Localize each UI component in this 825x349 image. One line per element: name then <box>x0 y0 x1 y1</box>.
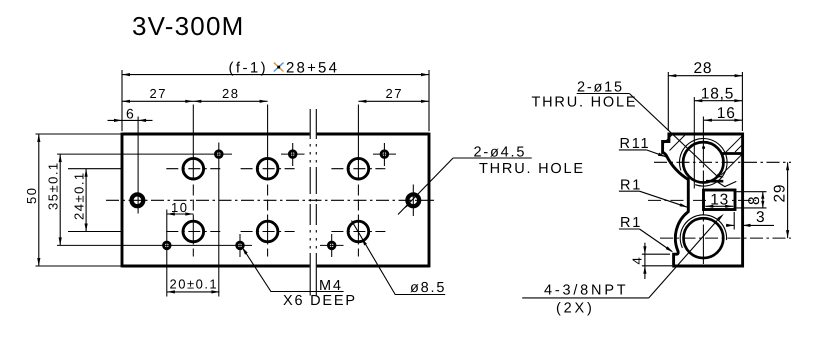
svg-text:8: 8 <box>746 196 763 205</box>
svg-text:18,5: 18,5 <box>701 85 734 102</box>
svg-text:ø8.5: ø8.5 <box>410 280 446 296</box>
svg-text:28: 28 <box>222 86 239 101</box>
svg-text:24±0.1: 24±0.1 <box>72 171 87 220</box>
svg-text:20±0.1: 20±0.1 <box>170 277 219 292</box>
svg-text:(2X): (2X) <box>556 301 595 317</box>
svg-text:3V-300M: 3V-300M <box>132 11 244 41</box>
svg-text:3: 3 <box>756 209 765 226</box>
svg-text:R1: R1 <box>620 215 642 231</box>
svg-text:THRU. HOLE: THRU. HOLE <box>532 95 638 111</box>
svg-text:6: 6 <box>126 105 135 121</box>
svg-text:29: 29 <box>772 184 789 203</box>
svg-text:4: 4 <box>630 256 645 265</box>
svg-text:X6 DEEP: X6 DEEP <box>283 293 357 309</box>
svg-text:M4: M4 <box>319 278 343 294</box>
svg-text:R11: R11 <box>620 136 651 152</box>
svg-text:16: 16 <box>717 105 736 122</box>
svg-text:35±0.1: 35±0.1 <box>46 161 61 210</box>
svg-text:R1: R1 <box>620 177 642 193</box>
svg-text:27: 27 <box>386 86 403 101</box>
svg-text:50: 50 <box>24 187 39 204</box>
svg-text:27: 27 <box>150 86 167 101</box>
svg-text:4-3/8NPT: 4-3/8NPT <box>544 282 628 298</box>
svg-text:28: 28 <box>694 60 713 77</box>
svg-text:2-ø15: 2-ø15 <box>577 80 624 96</box>
svg-text:THRU. HOLE: THRU. HOLE <box>479 161 585 177</box>
svg-text:2-ø4.5: 2-ø4.5 <box>474 144 527 160</box>
svg-text:(f-1): (f-1) <box>229 60 269 77</box>
svg-text:28+54: 28+54 <box>286 60 339 77</box>
